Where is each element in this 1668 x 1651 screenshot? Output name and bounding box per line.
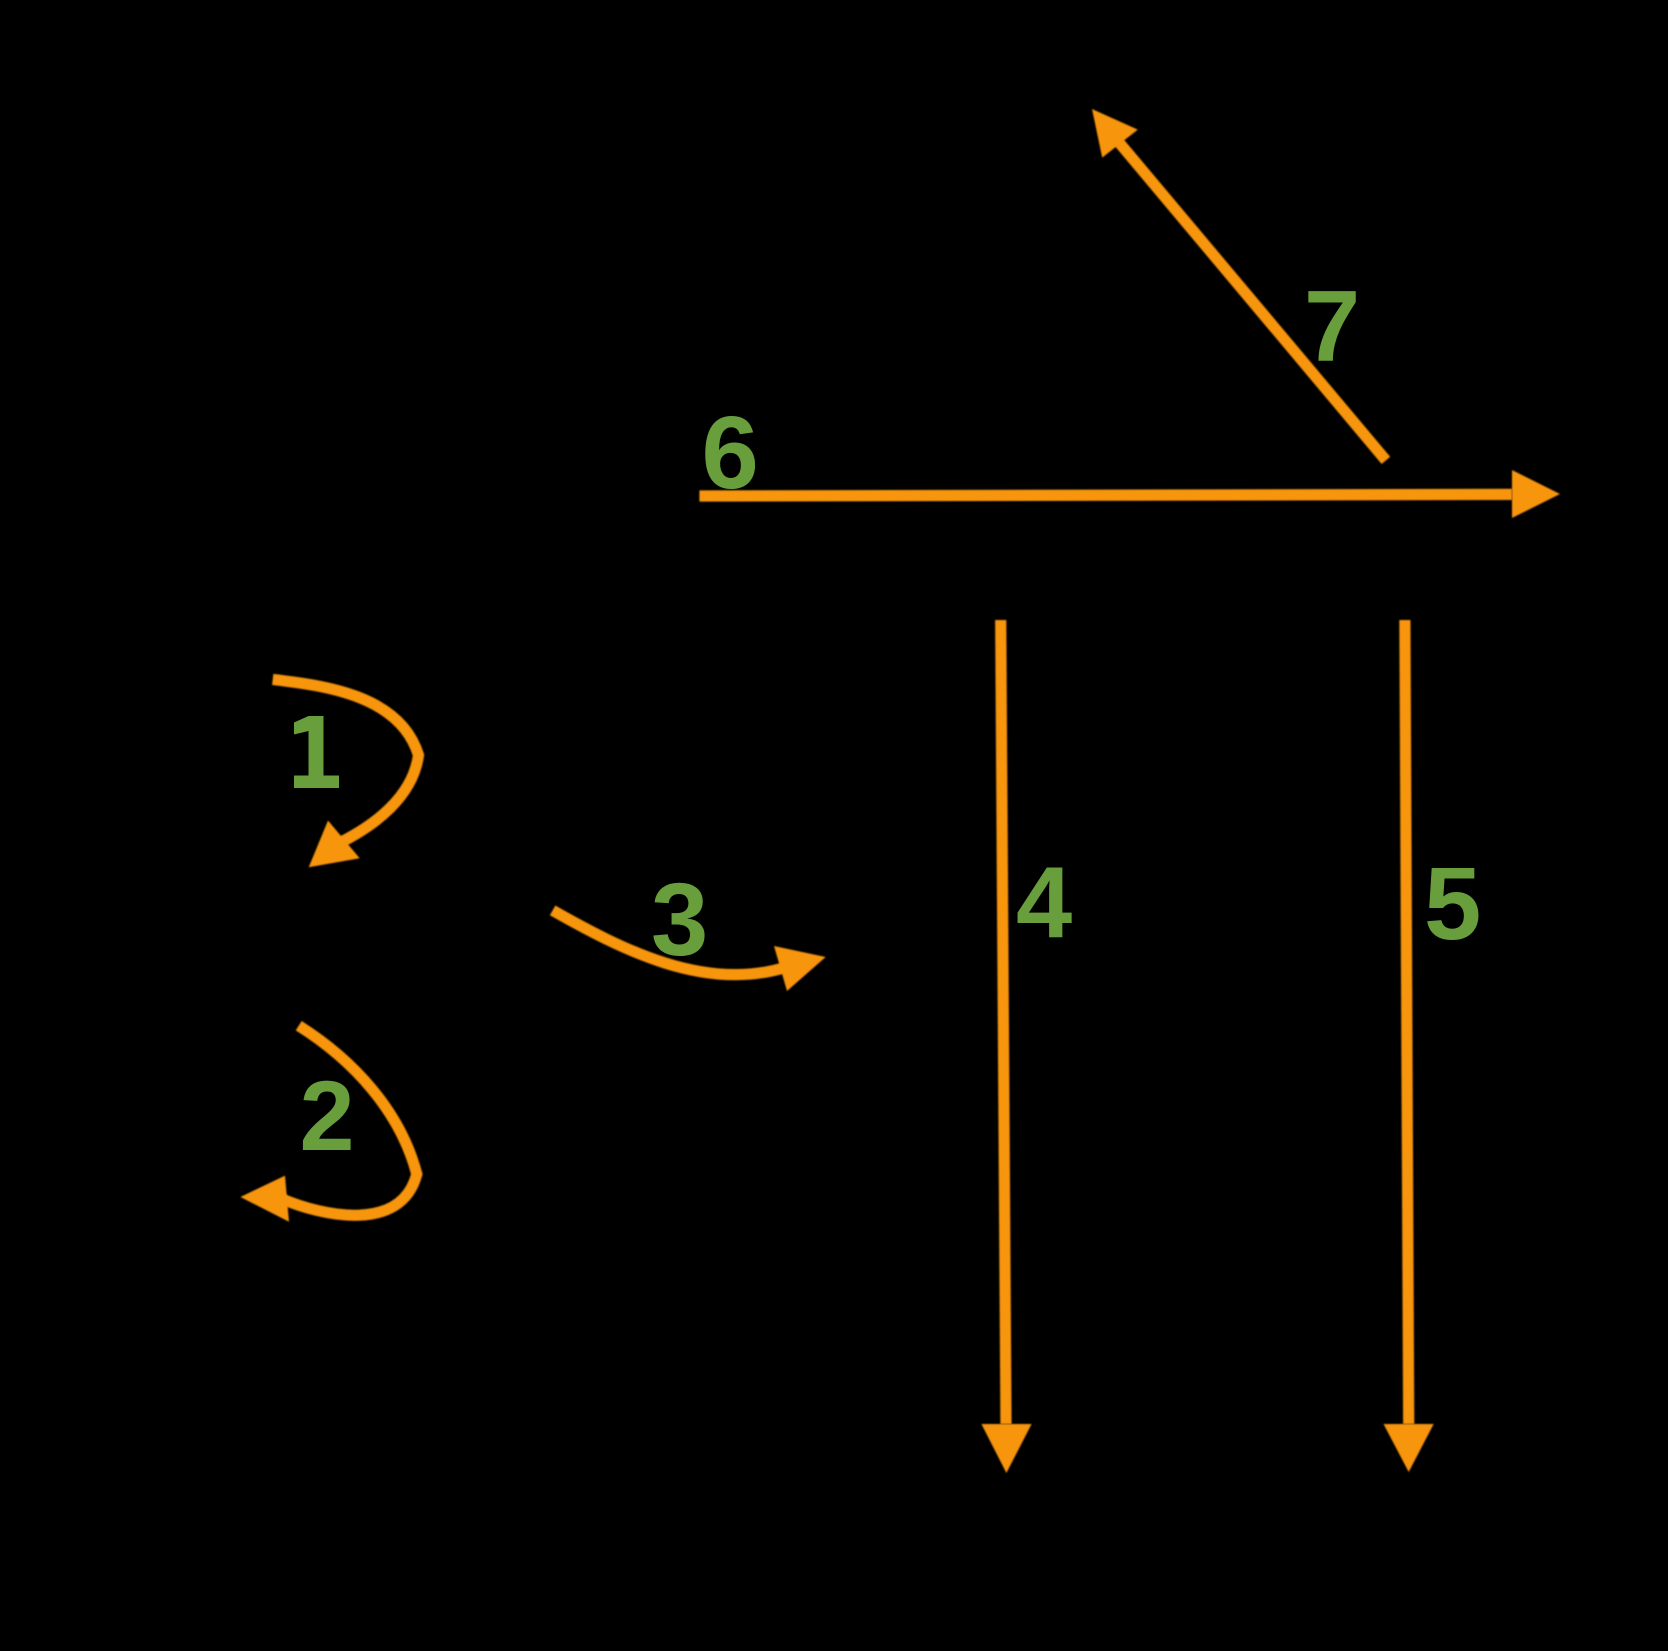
svg-text:7: 7 — [1304, 271, 1360, 383]
svg-text:6: 6 — [702, 395, 759, 510]
svg-text:4: 4 — [1016, 847, 1072, 959]
svg-text:5: 5 — [1424, 846, 1481, 961]
svg-text:2: 2 — [300, 1060, 355, 1171]
svg-text:3: 3 — [651, 862, 708, 977]
